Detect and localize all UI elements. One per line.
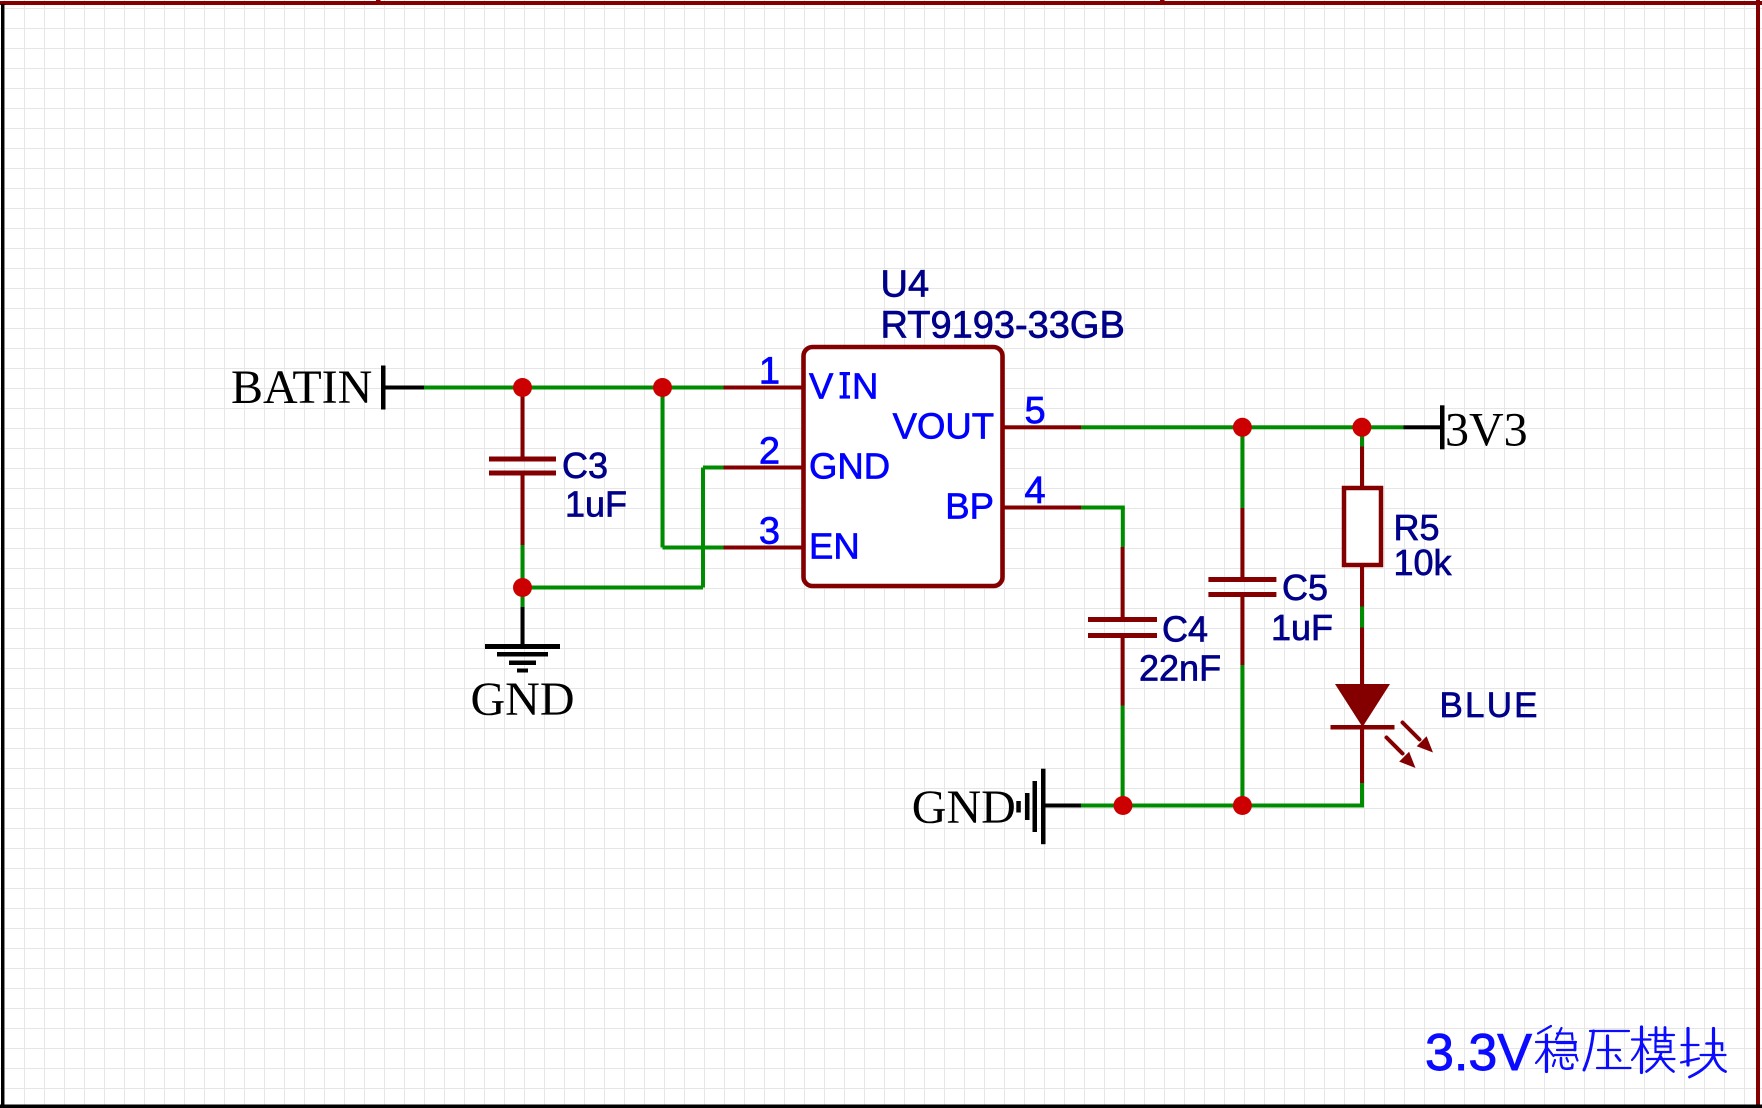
svg-text:GND: GND (471, 673, 575, 726)
svg-text:N: N (852, 366, 878, 407)
svg-text:U4: U4 (881, 264, 930, 306)
svg-text:C4: C4 (1162, 609, 1208, 650)
svg-text:4: 4 (1025, 470, 1046, 512)
svg-text:22nF: 22nF (1139, 648, 1221, 689)
svg-text:GND: GND (809, 446, 890, 487)
svg-text:EN: EN (809, 526, 860, 567)
svg-text:5: 5 (1025, 390, 1046, 432)
svg-text:BP: BP (945, 486, 994, 527)
svg-text:3.3V: 3.3V (1425, 1024, 1532, 1082)
svg-text:RT9193-33GB: RT9193-33GB (881, 305, 1125, 347)
svg-text:3: 3 (759, 511, 780, 553)
svg-text:1: 1 (759, 351, 780, 393)
svg-text:BLUE: BLUE (1440, 686, 1540, 725)
svg-text:1uF: 1uF (1271, 607, 1333, 648)
svg-text:1uF: 1uF (565, 484, 627, 525)
svg-text:10k: 10k (1394, 542, 1453, 583)
svg-text:C3: C3 (562, 445, 608, 486)
svg-text:2: 2 (759, 431, 780, 473)
svg-text:GND: GND (912, 781, 1016, 834)
svg-text:VOUT: VOUT (893, 406, 994, 447)
svg-text:V: V (809, 366, 834, 407)
svg-text:C5: C5 (1282, 567, 1328, 608)
svg-text:3V3: 3V3 (1445, 404, 1528, 457)
svg-text:BATIN: BATIN (231, 361, 372, 414)
